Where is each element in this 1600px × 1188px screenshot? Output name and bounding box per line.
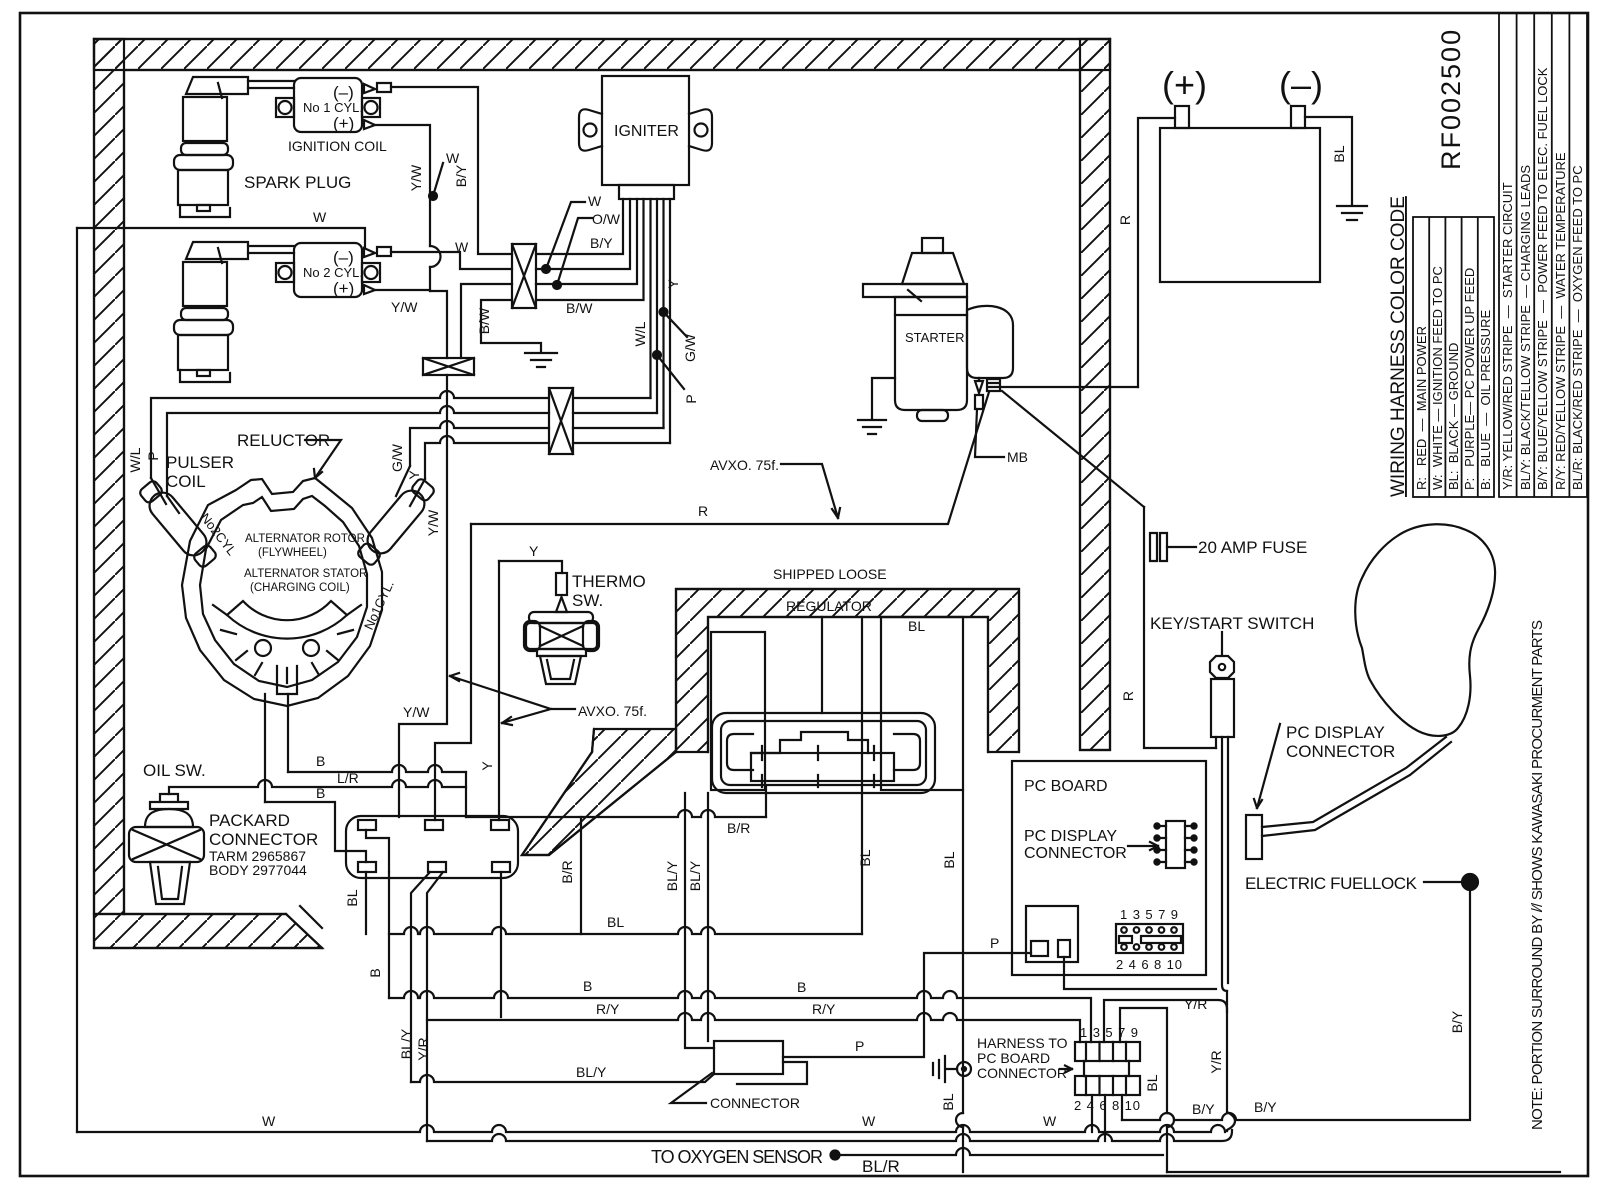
igniter right ear: [689, 109, 712, 150]
key/start switch knob: [1210, 656, 1234, 678]
svg-text:B/R: B/R: [559, 860, 575, 883]
spark plug 2 ground strap: [180, 370, 230, 382]
component block on board: [1026, 906, 1078, 962]
svg-text:B/W: B/W: [566, 300, 593, 316]
wire B/Y from coil 1 (-): [391, 87, 512, 254]
wire W from left riser to coil 2: [77, 228, 365, 247]
hatched regulator enclosure band: [676, 589, 1019, 752]
harness connector callout arrow: [1060, 1066, 1072, 1073]
wire pin8 to B/Y: [1121, 1095, 1123, 1120]
svg-text:G/W: G/W: [682, 333, 698, 362]
hatched border band: top strip: [94, 39, 1110, 70]
svg-text:(+): (+): [333, 114, 354, 133]
svg-text:RELUCTOR: RELUCTOR: [237, 431, 330, 450]
svg-text:Y/W: Y/W: [403, 704, 430, 720]
svg-text:BL: BL: [857, 849, 873, 866]
wire B upper corner down to connector top rail: [465, 772, 467, 817]
svg-text:Y: Y: [529, 543, 539, 559]
svg-text:R/Y: R/Y: [596, 1001, 620, 1017]
ignition coil 2 left tab: [276, 263, 294, 282]
wire B/R vertical from connector: [765, 787, 767, 817]
svg-text:PC BOARD: PC BOARD: [1024, 778, 1108, 795]
battery (+) terminal: [1175, 106, 1189, 128]
ignition coil 1 right tab: [362, 98, 380, 117]
svg-text:R: R: [1120, 691, 1136, 701]
svg-text:(–): (–): [1279, 64, 1323, 105]
svg-text:SHIPPED LOOSE: SHIPPED LOOSE: [773, 566, 887, 582]
svg-text:TO OXYGEN SENSOR: TO OXYGEN SENSOR: [651, 1147, 823, 1167]
hatched border band: bottom-left strip: [94, 906, 322, 948]
regulator inner wire: [821, 617, 823, 713]
svg-text:SPARK PLUG: SPARK PLUG: [244, 173, 351, 192]
svg-text:PC BOARD: PC BOARD: [977, 1050, 1050, 1066]
svg-text:BODY 2977044: BODY 2977044: [209, 862, 307, 878]
wire Y/R bottom run: [427, 1130, 1232, 1141]
ground symbol (B/W): [525, 353, 557, 367]
display cable: [1262, 737, 1451, 836]
svg-text:(+): (+): [333, 279, 354, 298]
svg-text:BL: BL: [941, 851, 957, 868]
spark plug 2 shell: [178, 335, 228, 370]
reluctor label and callout: [305, 440, 341, 478]
svg-text:Y/R: Y/R: [1208, 1050, 1224, 1073]
wire W/L diagonal to pulser coil 2: [151, 478, 166, 504]
svg-text:AVXO. 75f.: AVXO. 75f.: [578, 703, 647, 719]
Y/W bump around W wire: [430, 246, 441, 267]
svg-text:B/Y: B/Y: [590, 235, 613, 251]
wire O/W left segment: [461, 284, 512, 358]
svg-text:B: B: [797, 979, 806, 995]
stator spokes: [213, 605, 361, 683]
svg-text:2 4 6 8 10: 2 4 6 8 10: [1074, 1098, 1140, 1113]
svg-text:R: RED — MAIN POWER: R: RED — MAIN POWER: [1414, 326, 1429, 490]
wire BL below connector to horizontal run: [388, 872, 390, 998]
thermo switch Y wire: [499, 561, 562, 573]
wire R battery riser: [1138, 118, 1175, 387]
wire Y/W main riser with label: [399, 375, 447, 817]
oil switch cup: [150, 862, 190, 904]
hatched border band: left strip: [94, 39, 124, 948]
svg-text:BL: BL: [1144, 1074, 1160, 1091]
svg-text:No 1 CYL.: No 1 CYL.: [303, 100, 363, 115]
key/start switch callout: [1221, 632, 1223, 655]
packard pin bottom-right: [492, 862, 510, 872]
wire B long horizontal run: [389, 991, 1091, 1042]
wire BL/R oxygen sensor run: [831, 1151, 840, 1160]
svg-text:BL/R: BL/R: [862, 1157, 900, 1176]
svg-text:AVXO. 75f.: AVXO. 75f.: [710, 457, 779, 473]
spark plug 1 hex: [174, 155, 233, 170]
spark plug 1 gasket: [181, 143, 228, 155]
IC pins left: [1159, 826, 1166, 862]
svg-text:W: W: [588, 193, 602, 209]
starter motor cap: [922, 238, 943, 253]
svg-text:B: B: [583, 978, 592, 994]
MB callout: [975, 409, 1004, 457]
svg-text:B/Y: B/Y: [453, 164, 469, 187]
starter spade terminal: [975, 378, 983, 409]
packard pin top-right: [491, 820, 509, 830]
key/start switch body: [1211, 679, 1234, 737]
alternator rotor outer ring (reluctor flywheel): [182, 478, 382, 706]
svg-text:REGULATOR: REGULATOR: [786, 598, 872, 614]
svg-text:BL/R: BLACK/RED STRIPE — OX: BL/R: BLACK/RED STRIPE — OXYGEN FEED TO …: [1570, 165, 1585, 490]
svg-text:CONNECTOR: CONNECTOR: [977, 1065, 1067, 1081]
wire R into switch: [1215, 737, 1217, 748]
svg-text:B/Y: B/Y: [1254, 1099, 1277, 1115]
wire BL/Y no2 from regulator connector: [707, 793, 709, 1041]
alternator inner ring: [200, 496, 367, 687]
svg-text:MB: MB: [1007, 449, 1028, 465]
svg-text:PACKARD: PACKARD: [209, 811, 290, 830]
pulser coil No1CYL: [354, 475, 438, 568]
wire W left riser (down left side): [76, 228, 78, 1132]
spark plug 1 boot: [183, 97, 227, 141]
wire pin4 down to W: [1091, 1095, 1093, 1132]
svg-text:B/R: B/R: [727, 820, 750, 836]
svg-text:W: W: [455, 239, 469, 255]
wire B/W right to igniter pin4: [536, 199, 644, 300]
svg-text:P: PURPLE— PC POWER UP FE: P: PURPLE— PC POWER UP FEED: [1462, 268, 1477, 490]
thermo switch body: [556, 573, 567, 595]
wire Y/W from coil 1 (+): [375, 125, 430, 291]
igniter body: [602, 76, 689, 185]
regulator connector inner shell: [721, 721, 926, 785]
wire from component to Y/R: [1064, 957, 1216, 989]
AVXO 75f lower callout: [450, 673, 575, 725]
connector callout: [671, 1073, 712, 1103]
battery body: [1160, 128, 1320, 282]
O/W callout dot and leader: [553, 281, 561, 289]
oil switch dome: [145, 809, 193, 827]
W callout dot and leader: [542, 265, 550, 273]
svg-text:WIRING HARNESS COLOR CODE: WIRING HARNESS COLOR CODE: [1388, 196, 1409, 497]
stator center post: [277, 666, 297, 694]
wire pin5 to Y/R: [1104, 1000, 1227, 1042]
starter ground wire: [872, 378, 895, 419]
HT lead coil 1: [248, 81, 294, 88]
wire G/W diagonal to pulser coil 1: [396, 466, 410, 496]
wire BL battery to ground: [1305, 117, 1352, 205]
wire Y/W from coil 2 (+): [375, 289, 430, 291]
spark plug 2 hex: [174, 320, 233, 335]
svg-text:THERMO: THERMO: [572, 572, 646, 591]
svg-text:Y: Y: [406, 470, 422, 480]
stator holes: [255, 640, 271, 656]
ground symbol (battery): [1337, 206, 1367, 220]
spark plug 2 cap: [186, 242, 248, 263]
svg-text:CONNECTOR: CONNECTOR: [1024, 845, 1127, 862]
stator wire B right: [287, 694, 289, 772]
packard pin bottom-middle: [428, 862, 446, 872]
spark plug 1 ground strap: [180, 205, 230, 217]
svg-text:B: B: [316, 753, 325, 769]
svg-text:L/R: L/R: [337, 770, 359, 786]
packard connector body: [346, 816, 518, 878]
ignition coil 1 body: [294, 78, 362, 132]
wire B/Y right to igniter pin1: [536, 199, 623, 254]
wire pin6 down to Y/R run: [1104, 1095, 1106, 1141]
starter motor flange: [863, 284, 967, 301]
svg-text:Y/R: Y/R: [415, 1037, 431, 1060]
wire B/R horizontal run: [466, 810, 766, 817]
spark plug 1 shell: [178, 170, 228, 205]
svg-text:Y/W: Y/W: [425, 509, 441, 536]
connector box (4-wire, upper): [512, 244, 536, 308]
wire P from connector box: [783, 953, 1031, 1057]
igniter wires W/L P G/W Y vertical runs: [651, 199, 671, 443]
AVXO 75f upper callout: [781, 464, 840, 518]
wire BL bottom run: [1167, 1171, 1560, 1173]
color code table group B (Y/R BL/Y B/Y R/Y BL/R): [1499, 13, 1587, 497]
svg-text:W: W: [446, 150, 460, 166]
wire R/Y long horizontal run: [427, 1013, 1080, 1042]
svg-text:STARTER: STARTER: [905, 330, 964, 345]
wire Y diagonal to pulser coil 1: [410, 479, 425, 506]
spark plug 2 boot: [183, 262, 227, 306]
svg-text:P: P: [990, 935, 999, 951]
wire BL vertical right of regulator: [962, 790, 964, 1172]
wire B upper (stator to right): [288, 765, 466, 772]
thermo sensor top bar: [529, 612, 593, 623]
hatched wedge below regulator: [522, 729, 676, 855]
svg-text:BL/Y: BL/Y: [664, 860, 680, 891]
connector box (4-wire, lower): [549, 388, 573, 454]
wire pin7 to BL: [1120, 1008, 1167, 1172]
svg-text:BL: BL: [607, 914, 624, 930]
W label dot near Y/W riser: [429, 192, 437, 200]
chassis ground left of harness connector: [957, 1062, 971, 1076]
spark plug 2 tip: [197, 370, 210, 376]
svg-text:W/L: W/L: [632, 321, 648, 346]
starter motor cone: [902, 253, 964, 284]
svg-text:BL: BL: [344, 889, 360, 906]
harness connector joiners: [1084, 1061, 1129, 1076]
svg-text:B/Y: B/Y: [1192, 1101, 1215, 1117]
color code table group A (R W BL P B): [1413, 217, 1494, 497]
wire B/W left segment to ground: [481, 300, 541, 352]
HT lead coil 2: [248, 246, 294, 253]
svg-text:P: P: [855, 1038, 864, 1054]
wire R long horizontal run: [471, 392, 989, 524]
svg-text:Y/R: YELLOW/RED STRIPE — ST: Y/R: YELLOW/RED STRIPE — STARTER CIRCUIT: [1500, 182, 1515, 490]
svg-text:B/Y: BLUE/YELLOW STRIPE — P: B/Y: BLUE/YELLOW STRIPE — POWER FEED TO …: [1535, 67, 1550, 490]
wire Y/R pair from switch: [1222, 737, 1228, 991]
pc display connector (remote): [1246, 815, 1262, 859]
pc display connector IC on board: [1166, 821, 1185, 868]
spark plug 2 gasket: [181, 308, 228, 320]
wire P diagonal to pulser coil 2: [167, 496, 179, 513]
thermo sensor cup: [540, 656, 581, 684]
svg-text:No 2 CYL.: No 2 CYL.: [303, 265, 363, 280]
IC pins right: [1185, 826, 1192, 862]
svg-text:BL/Y: BLACK/TELLOW STRIPE —: BL/Y: BLACK/TELLOW STRIPE — CHARGING LEA…: [1518, 165, 1533, 490]
svg-text:NOTE: PORTION SURROUND BY: NOTE: PORTION SURROUND BY /∕/ SHOWS KAWA…: [1529, 620, 1546, 1130]
ignition coil 2 (+) terminal: [364, 285, 375, 294]
battery (-) terminal: [1291, 106, 1305, 128]
svg-text:R/Y: R/Y: [812, 1001, 836, 1017]
svg-text:G/W: G/W: [389, 443, 405, 472]
svg-text:IGNITION COIL: IGNITION COIL: [288, 138, 387, 154]
svg-text:Y: Y: [665, 279, 681, 289]
svg-text:KEY/START SWITCH: KEY/START SWITCH: [1150, 614, 1314, 633]
wire B/Y bottom run: [1122, 889, 1470, 1120]
wire R from MB to battery riser: [1000, 386, 1138, 388]
fuse leader diagonal: [1002, 391, 1144, 507]
svg-text:2 4 6 8 10: 2 4 6 8 10: [1116, 957, 1182, 972]
wire BL/Y from bottom-middle pin: [411, 872, 430, 1082]
ground symbol (starter): [858, 420, 886, 434]
ignition coil 1 (+) terminal: [364, 120, 375, 129]
svg-text:CONNECTOR: CONNECTOR: [209, 830, 318, 849]
wire BL horizontal run: [389, 927, 862, 934]
pulser coil No2CYL: [136, 477, 220, 570]
svg-text:Y/R: Y/R: [1184, 996, 1207, 1012]
wire BL inside connector from top-left pin: [366, 830, 389, 872]
wire B lower (stator left to packard): [265, 802, 366, 862]
svg-text:SW.: SW.: [572, 591, 603, 610]
starter MB terminal: [987, 379, 1000, 391]
svg-text:1 3 5 7 9: 1 3 5 7 9: [1080, 1025, 1138, 1040]
regulator connector bar: [751, 753, 894, 781]
ignition coil 1 (-) terminal: [364, 83, 391, 93]
wire P from igniter through box to left riser: [167, 406, 657, 496]
wire G/W from igniter through box: [410, 421, 664, 466]
wire BL vertical to regulator: [861, 617, 863, 934]
svg-text:(+): (+): [1162, 64, 1207, 105]
connector box (2-wire, mid): [423, 358, 474, 375]
wire Y from thermo into top-right pin: [498, 561, 500, 820]
wire Y below connector: [500, 872, 502, 1017]
alternator stator horseshoe: [227, 601, 347, 639]
igniter base: [619, 185, 674, 199]
wire W/L from igniter through box to left riser: [151, 391, 651, 478]
wire Y from igniter through box: [425, 436, 670, 479]
regulator inner right block: [881, 617, 963, 790]
wire Y/R from bottom-middle pin area: [427, 872, 443, 1141]
P callout dot: [653, 351, 661, 359]
wire W bottom long run: [77, 1125, 1225, 1132]
electric fuellock dot: [1462, 874, 1478, 890]
svg-text:OIL SW.: OIL SW.: [143, 761, 206, 780]
spark plug 1 cap: [186, 77, 248, 98]
wire from packard bottom-left pin: [365, 872, 367, 934]
wire W right to igniter pin2: [536, 199, 630, 269]
svg-text:W: W: [262, 1113, 276, 1129]
regulator connector right bracket: [894, 734, 920, 770]
svg-text:(–): (–): [333, 248, 354, 267]
svg-text:B/Y: B/Y: [1449, 1010, 1465, 1033]
wire R from long run into top-middle pin: [435, 524, 471, 820]
G/W callout dot: [660, 308, 668, 316]
svg-text:W: W: [862, 1113, 876, 1129]
svg-text:ALTERNATOR STATOR: ALTERNATOR STATOR: [244, 568, 367, 580]
thermo sensor neck: [537, 649, 586, 656]
regulator inner left block: [711, 632, 765, 790]
svg-text:W: W: [1043, 1113, 1057, 1129]
svg-text:1 3 5 7 9: 1 3 5 7 9: [1120, 907, 1178, 922]
svg-text:PULSER: PULSER: [166, 453, 234, 472]
svg-text:B: BLUE — OIL PRESSURE: B: BLUE — OIL PRESSURE: [1478, 310, 1493, 490]
wire BL/Y no1 from regulator connector: [685, 793, 714, 1048]
starter solenoid: [967, 306, 1013, 378]
fuse callout: [1167, 546, 1196, 548]
svg-text:W: WHITE — IGNITION FEED TO: W: WHITE — IGNITION FEED TO PC: [1430, 266, 1445, 490]
svg-text:B/W: B/W: [476, 307, 492, 334]
hatched border band: right strip: [1080, 39, 1110, 750]
harness to pc board connector bottom row: [1075, 1076, 1140, 1095]
ignition coil 2 body: [294, 243, 362, 297]
wire BL/Y horizontal to connector: [411, 1074, 714, 1082]
svg-text:BL: BL: [908, 618, 925, 634]
svg-text:Y: Y: [479, 761, 495, 771]
svg-text:BL: BL: [940, 1093, 956, 1110]
spark plug 1 tip: [197, 205, 210, 211]
svg-text:P: P: [145, 451, 161, 460]
svg-text:HARNESS TO: HARNESS TO: [977, 1035, 1068, 1051]
packard pin top-left: [358, 820, 376, 830]
svg-text:CONNECTOR: CONNECTOR: [1286, 742, 1395, 761]
svg-text:20 AMP FUSE: 20 AMP FUSE: [1198, 538, 1307, 557]
svg-text:O/W: O/W: [592, 211, 621, 227]
regulator connector left bracket: [727, 734, 753, 770]
igniter left ear: [579, 109, 602, 150]
connector box (bottom center): [714, 1041, 783, 1074]
regulator connector outer shell: [712, 713, 935, 793]
svg-text:R/Y: RED/YELLOW STRIPE — WA: R/Y: RED/YELLOW STRIPE — WATER TEMPERATU…: [1553, 152, 1568, 490]
svg-text:R: R: [1117, 215, 1133, 225]
svg-text:ELECTRIC FUELLOCK: ELECTRIC FUELLOCK: [1245, 874, 1418, 893]
ignition coil 2 (-) terminal: [364, 247, 391, 257]
svg-text:BL/Y: BL/Y: [687, 860, 703, 891]
svg-text:B: B: [367, 968, 383, 977]
svg-text:CONNECTOR: CONNECTOR: [710, 1095, 800, 1111]
svg-text:W/L: W/L: [127, 447, 143, 472]
regulator connector pin ticks: [762, 746, 874, 787]
stator wire B left: [264, 694, 266, 802]
ignition coil 1 left tab: [276, 98, 294, 117]
starter foot: [917, 410, 948, 421]
svg-text:BL: BL: [1331, 145, 1347, 162]
oil switch cap: [150, 794, 188, 809]
ignition coil 2 right tab: [362, 263, 380, 282]
thermo sensor hex: [526, 623, 597, 649]
svg-text:BL: BLACK — GROUND: BL: BLACK — GROUND: [1446, 343, 1461, 490]
wire Y/R vertical run: [1227, 991, 1235, 1131]
packard pin bottom-left: [358, 862, 376, 872]
svg-text:RF002500: RF002500: [1436, 28, 1466, 170]
svg-text:ALTERNATOR ROTOR: ALTERNATOR ROTOR: [245, 533, 365, 545]
packard pin top-middle: [425, 820, 443, 830]
svg-text:BL/Y: BL/Y: [576, 1064, 607, 1080]
starter motor body: [895, 297, 967, 410]
svg-text:IGNITER: IGNITER: [614, 123, 679, 140]
svg-text:P: P: [683, 394, 699, 403]
regulator connector center step: [751, 732, 868, 753]
pc board outline: [1012, 761, 1206, 975]
svg-text:PC DISPLAY: PC DISPLAY: [1286, 723, 1385, 742]
svg-text:B: B: [316, 785, 325, 801]
svg-text:W: W: [313, 209, 327, 225]
svg-text:R: R: [698, 503, 708, 519]
svg-text:COIL: COIL: [166, 472, 206, 491]
svg-text:(CHARGING COIL): (CHARGING COIL): [250, 582, 350, 594]
20 amp fuse symbol: [1144, 507, 1216, 748]
harness to pc board connector top row: [1075, 1042, 1140, 1061]
wire W from coil2(-) to junction, hop over Y/W: [391, 252, 512, 269]
pc display connector label arrow: [1128, 842, 1158, 850]
oil switch hex: [129, 827, 204, 862]
